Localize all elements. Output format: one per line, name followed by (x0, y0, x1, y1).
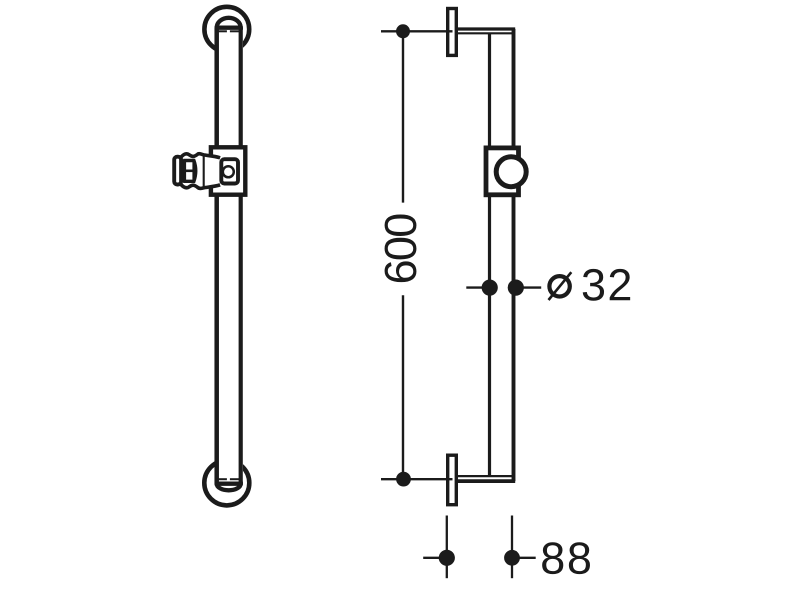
handle grip + neck body fill (front view) (181, 154, 220, 189)
handle grip + neck top outline (181, 154, 220, 158)
dimension 600 line lower segment (402, 295, 404, 479)
slider body (side view) (486, 148, 519, 195)
bottom cap seam line (broken) (217, 478, 227, 480)
bottom support arm inner line (456, 475, 513, 477)
bottom cap base line (215, 482, 243, 485)
dimension 88 right dot (504, 550, 520, 566)
bottom wall flange (front view) (204, 460, 249, 505)
grip face right edge (192, 161, 195, 182)
dimension 88 left extension line (446, 516, 448, 579)
bottom wall plate (side view) (448, 455, 457, 505)
rail tube right edge (side view) (512, 29, 516, 481)
grip face left edge (183, 161, 186, 182)
dimension o32 left dot (482, 280, 498, 296)
dimension o32 left whisker (466, 286, 489, 288)
top cap base line (215, 26, 243, 29)
dimension 88 left whisker (423, 557, 447, 559)
diameter symbol slash (549, 272, 572, 300)
handle grip + neck bottom outline (181, 185, 220, 189)
rail tube left edge (side view) (488, 33, 491, 476)
dimension 600 bottom extension line (381, 478, 453, 480)
dimension 88 left dot (439, 550, 455, 566)
diameter symbol ring (549, 276, 569, 296)
dimension 600 top extension line (381, 30, 453, 32)
dimension 88 right extension line (511, 516, 513, 579)
top wall plate (side view) (448, 9, 457, 56)
handle end cap (front view) (174, 157, 181, 185)
top cap seam line (broken) (217, 30, 227, 32)
top wall flange (front view) (204, 7, 249, 52)
release button (223, 166, 234, 177)
dimension 88 right whisker (512, 557, 536, 559)
handle grip face (barrel lens) (183, 161, 196, 182)
dimension label 32 (as glyph paths) (583, 269, 630, 301)
grip face center line (184, 170, 194, 173)
top support arm outer line (456, 27, 515, 30)
bottom support arm outer line (456, 479, 515, 483)
dimension o32 right whisker (516, 286, 542, 288)
dimension 600 bottom dot (396, 472, 411, 487)
dimension 600 top dot (396, 24, 410, 38)
dimension 600 line upper segment (402, 31, 404, 202)
grip neck divider line (203, 156, 205, 187)
rail tube (front view) (215, 28, 243, 484)
top end cap dome (front view) (217, 18, 241, 28)
dimension label 88 (as glyph paths) (542, 542, 590, 574)
slider knob (side view) (496, 157, 526, 187)
dimension label 600 (as glyph paths) (385, 214, 417, 282)
release button window (221, 159, 238, 183)
rail tube white body (side view) (488, 29, 516, 481)
slider body (front view) (211, 147, 245, 194)
top support arm inner line (456, 32, 513, 34)
bottom end cap dome (front view) (217, 484, 241, 491)
dimension o32 right dot (508, 280, 524, 296)
